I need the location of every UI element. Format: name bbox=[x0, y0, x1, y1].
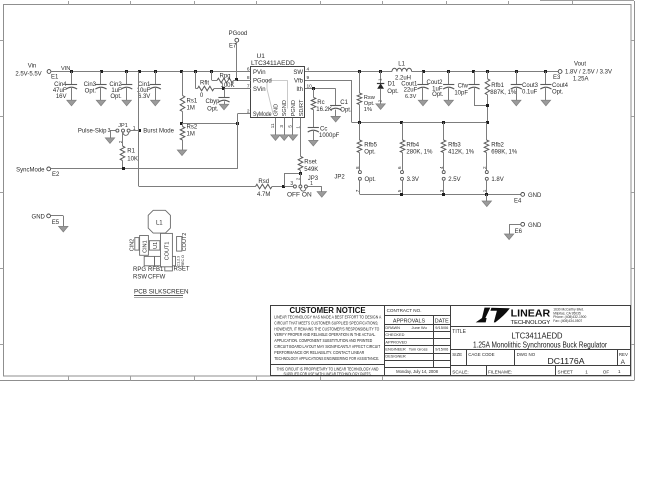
svg-text:3: 3 bbox=[279, 125, 284, 128]
wire SyncMode rail bbox=[51, 168, 238, 170]
svg-text:GND: GND bbox=[528, 223, 542, 229]
wire SW to L1 bbox=[305, 71, 392, 73]
svg-text:2.5V-5.5V: 2.5V-5.5V bbox=[15, 71, 41, 77]
svg-text:PVin: PVin bbox=[253, 70, 266, 76]
svg-text:E7: E7 bbox=[229, 43, 237, 49]
svg-text:GND: GND bbox=[528, 193, 542, 199]
silkscreen U1 box bbox=[149, 241, 160, 250]
node Cbyp tap bbox=[222, 87, 225, 90]
svg-text:Rfb5: Rfb5 bbox=[364, 143, 377, 149]
svg-text:Opt.: Opt. bbox=[552, 90, 564, 96]
svg-text:8: 8 bbox=[247, 75, 250, 81]
resistor Rfb4 280K/1% bbox=[400, 123, 433, 171]
svg-text:9/15/06: 9/15/06 bbox=[435, 325, 448, 330]
svg-text:3: 3 bbox=[108, 128, 111, 134]
silkscreen COUT1 box bbox=[161, 233, 173, 266]
svg-text:698K, 1%: 698K, 1% bbox=[491, 150, 518, 156]
svg-text:3.3V: 3.3V bbox=[407, 177, 419, 183]
wire Vfb to divider bbox=[305, 80, 352, 122]
resistor Rpg 100K bbox=[212, 72, 237, 90]
svg-text:FILENAME:: FILENAME: bbox=[488, 369, 512, 374]
svg-text:VIN: VIN bbox=[61, 66, 70, 72]
svg-text:Cc: Cc bbox=[320, 127, 327, 133]
resistor Rc 16.2K bbox=[311, 89, 332, 128]
node VIN junctions bbox=[70, 70, 213, 73]
U1 pin names bbox=[253, 70, 305, 118]
svg-text:SD/RT: SD/RT bbox=[299, 99, 305, 116]
jumper JP2 column 1.8V pins bbox=[482, 166, 504, 194]
wire feedback rail bbox=[352, 122, 487, 124]
wire SyncMode vertical riser bbox=[237, 114, 239, 169]
svg-text:11: 11 bbox=[270, 123, 275, 128]
node at SyncMode vertical bbox=[236, 122, 239, 125]
svg-text:10K: 10K bbox=[127, 157, 138, 163]
title cell bbox=[450, 329, 631, 350]
svg-text:JP1: JP1 bbox=[118, 123, 127, 129]
svg-text:C1: C1 bbox=[340, 100, 348, 106]
svg-text:TECHNOLOGY APPLICATIONS ENGINE: TECHNOLOGY APPLICATIONS ENGINEERING FOR … bbox=[274, 356, 379, 361]
svg-text:Cout3: Cout3 bbox=[522, 83, 539, 89]
zone tick marks bbox=[0, 1, 634, 381]
logo cell divider bbox=[450, 326, 631, 328]
diode D1 Opt bbox=[376, 72, 399, 110]
silkscreen L1 outline bbox=[148, 210, 170, 233]
title block column dividers bbox=[385, 306, 451, 376]
svg-text:ON: ON bbox=[302, 191, 312, 198]
sheet inner border bbox=[4, 5, 632, 377]
capacitor Cin3 Opt bbox=[84, 72, 107, 106]
contract no cell bbox=[384, 308, 450, 316]
node Rs1/Rs2 midpoint bbox=[180, 122, 183, 125]
capacitor C1 Opt bbox=[330, 89, 352, 122]
svg-text:PCB SILKSCREEN: PCB SILKSCREEN bbox=[134, 289, 189, 296]
svg-text:SIZE: SIZE bbox=[452, 352, 462, 357]
svg-text:SyMode: SyMode bbox=[253, 112, 272, 118]
resistor Rfb1 887K 1% bbox=[485, 72, 517, 123]
svg-text:Tom Gross: Tom Gross bbox=[409, 347, 428, 352]
svg-text:CIN1: CIN1 bbox=[142, 240, 148, 253]
svg-text:1M: 1M bbox=[187, 132, 195, 138]
resistor Rfb2 698K/1% bbox=[484, 123, 518, 171]
svg-text:Rpg: Rpg bbox=[219, 73, 230, 79]
resistor Rsw Opt 1% bbox=[357, 72, 376, 123]
svg-text:1%: 1% bbox=[364, 107, 372, 113]
svg-text:DESIGNER: DESIGNER bbox=[385, 354, 406, 359]
svg-text:Vin: Vin bbox=[28, 63, 37, 69]
wire VIN rail bbox=[51, 66, 251, 72]
svg-text:PERFORMANCE OR RELIABILITY. C: PERFORMANCE OR RELIABILITY. CONTACT LINE… bbox=[274, 350, 365, 355]
op-amp U1 LTC3411AEDD body bbox=[251, 67, 305, 118]
svg-text:RSW: RSW bbox=[133, 274, 147, 280]
svg-text:Cout4: Cout4 bbox=[552, 83, 569, 89]
svg-text:8: 8 bbox=[355, 166, 360, 169]
terminal E7 PGood bbox=[229, 31, 248, 49]
svg-text:ENGINEER: ENGINEER bbox=[385, 347, 406, 352]
terminal E4 GND bbox=[514, 193, 542, 205]
svg-text:Cin3: Cin3 bbox=[84, 82, 97, 88]
resistor Rflt 0 bbox=[196, 72, 252, 99]
node Vout junctions bbox=[422, 70, 547, 73]
svg-text:RFB1: RFB1 bbox=[148, 267, 164, 273]
svg-text:COUT1: COUT1 bbox=[165, 242, 171, 261]
customer notice divider bbox=[271, 364, 385, 366]
svg-text:DC1176A: DC1176A bbox=[548, 357, 586, 366]
capacitor Cout1 22uF 6.3V bbox=[401, 72, 428, 106]
svg-text:JP3: JP3 bbox=[308, 176, 319, 182]
svg-text:Rs1: Rs1 bbox=[187, 99, 198, 105]
silkscreen RSET box bbox=[165, 266, 173, 271]
resistor Rsd 4.7M bbox=[256, 179, 294, 198]
svg-text:Vout: Vout bbox=[574, 62, 586, 68]
svg-text:SVin: SVin bbox=[253, 87, 266, 93]
size cage dwg row bbox=[450, 350, 631, 366]
capacitor Cc 1000pF bbox=[308, 127, 340, 146]
svg-text:HOWEVER, IT REMAINS THE CUSTOM: HOWEVER, IT REMAINS THE CUSTOMER'S RESPO… bbox=[274, 326, 379, 331]
capacitor Cbyp Opt bbox=[205, 89, 229, 113]
inductor L1 2.2uH bbox=[392, 62, 412, 82]
svg-text:E5: E5 bbox=[52, 220, 60, 226]
node Rset bottom bbox=[299, 172, 302, 175]
svg-text:Rfb3: Rfb3 bbox=[448, 143, 461, 149]
ground at JP1 pin3 bbox=[105, 138, 114, 144]
node Rsw tap bbox=[358, 70, 361, 73]
svg-text:3: 3 bbox=[439, 189, 444, 192]
wire bypass to Rset bottom bbox=[284, 173, 300, 186]
jumper JP2 column 3.3V pins bbox=[397, 166, 419, 194]
svg-text:412K, 1%: 412K, 1% bbox=[448, 150, 475, 156]
svg-text:Monday, July 14, 2008: Monday, July 14, 2008 bbox=[396, 369, 438, 374]
scale filename sheet row bbox=[452, 366, 621, 376]
approvals header bbox=[384, 316, 450, 368]
node R1 bottom bbox=[122, 167, 125, 170]
svg-text:6: 6 bbox=[247, 66, 250, 72]
svg-text:Rs2: Rs2 bbox=[187, 125, 198, 131]
svg-text:5: 5 bbox=[397, 189, 402, 192]
svg-text:Rfb2: Rfb2 bbox=[491, 143, 504, 149]
svg-text:6.3V: 6.3V bbox=[138, 94, 150, 100]
svg-text:9/15/06: 9/15/06 bbox=[435, 347, 448, 352]
approvals rows bbox=[384, 332, 450, 368]
customer notice body text bbox=[274, 315, 382, 361]
capacitor Cout3 0.1uF bbox=[511, 72, 539, 106]
customer notice proprietary text bbox=[277, 366, 379, 376]
node Cfw to Rfb1 bbox=[486, 104, 489, 107]
svg-text:1.8V / 2.5V / 3.3V: 1.8V / 2.5V / 3.3V bbox=[565, 69, 612, 75]
U1 pin numbers bbox=[247, 66, 312, 128]
svg-text:E6: E6 bbox=[515, 229, 523, 235]
svg-text:SGND: SGND bbox=[282, 100, 288, 116]
svg-text:RPG: RPG bbox=[133, 267, 146, 273]
svg-text:E1: E1 bbox=[51, 75, 59, 81]
svg-text:Rflt: Rflt bbox=[200, 80, 209, 86]
U1 ground pin SGND bbox=[280, 118, 289, 141]
svg-text:DRAWN: DRAWN bbox=[385, 325, 400, 330]
svg-text:GND: GND bbox=[274, 104, 280, 116]
svg-text:3: 3 bbox=[290, 181, 293, 187]
svg-text:CIRCUIT THAT MEETS CUSTOMER-SU: CIRCUIT THAT MEETS CUSTOMER-SUPPLIED SPE… bbox=[274, 320, 378, 325]
svg-text:OFF: OFF bbox=[287, 191, 300, 198]
terminal E3 Vout bbox=[553, 62, 612, 83]
silkscreen CIN2 box bbox=[135, 238, 139, 251]
svg-text:Cout1: Cout1 bbox=[401, 81, 418, 87]
svg-text:1.25A Monolithic Synchronous B: 1.25A Monolithic Synchronous Buck Regula… bbox=[473, 339, 607, 349]
svg-text:TECHNOLOGY: TECHNOLOGY bbox=[511, 320, 551, 326]
svg-text:VERIFY PROPER AND RELIABLE OPE: VERIFY PROPER AND RELIABLE OPERATION IN … bbox=[274, 332, 375, 337]
logo address bbox=[553, 308, 586, 323]
node Ith bbox=[312, 87, 315, 90]
svg-text:1: 1 bbox=[133, 126, 136, 132]
svg-text:PGND: PGND bbox=[291, 100, 297, 116]
jumper JP1 pins bbox=[110, 129, 139, 138]
svg-text:APPROVED: APPROVED bbox=[385, 339, 407, 344]
sheet outer border right bbox=[634, 1, 636, 381]
wire midpoint to SyncMode vertical bbox=[182, 123, 237, 125]
wire SD/RT bbox=[300, 118, 302, 157]
svg-text:Cout2: Cout2 bbox=[426, 80, 443, 86]
title block outline bbox=[271, 306, 631, 376]
wire JP2 ground rail bbox=[360, 194, 521, 196]
ground at feedback rail bbox=[482, 194, 491, 206]
wire VIN drop vertical bbox=[138, 72, 140, 187]
svg-text:1: 1 bbox=[618, 369, 621, 374]
jumper JP3 pins bbox=[32, 173, 631, 376]
svg-text:SUPPLIED FOR USE WITH LINEAR T: SUPPLIED FOR USE WITH LINEAR TECHNOLOGY … bbox=[284, 372, 372, 377]
svg-text:June Wu: June Wu bbox=[412, 325, 427, 330]
svg-text:1: 1 bbox=[295, 126, 300, 129]
svg-text:549K: 549K bbox=[304, 167, 318, 173]
svg-text:Fax: (408)434-0507: Fax: (408)434-0507 bbox=[553, 319, 582, 323]
svg-text:E2: E2 bbox=[52, 172, 60, 178]
svg-text:Opt.: Opt. bbox=[207, 106, 219, 112]
capacitor Cout2 1uF Opt bbox=[426, 72, 454, 106]
label PCB SILKSCREEN bbox=[134, 289, 189, 298]
svg-text:Opt.: Opt. bbox=[340, 108, 352, 114]
resistor Rset 549K bbox=[298, 156, 318, 173]
svg-text:PGood: PGood bbox=[229, 31, 248, 37]
svg-text:10pF: 10pF bbox=[454, 91, 468, 97]
svg-text:SHEET: SHEET bbox=[558, 369, 574, 374]
wire Ith bbox=[305, 88, 336, 90]
svg-text:Rc: Rc bbox=[317, 100, 324, 106]
svg-text:Rfb4: Rfb4 bbox=[406, 143, 419, 149]
resistor Rs1 1M bbox=[180, 72, 198, 124]
svg-text:LINEAR TECHNOLOGY HAS MADE A B: LINEAR TECHNOLOGY HAS MADE A BEST EFFORT… bbox=[274, 315, 382, 320]
sheet outer border bottom bbox=[0, 380, 634, 382]
svg-text:5: 5 bbox=[288, 125, 293, 128]
svg-text:22uF: 22uF bbox=[404, 88, 418, 94]
svg-text:PGood: PGood bbox=[253, 78, 272, 84]
svg-text:6: 6 bbox=[397, 166, 402, 169]
resistor R1 10K bbox=[120, 132, 138, 169]
svg-text:Opt.: Opt. bbox=[364, 150, 376, 156]
node feedback rail junctions bbox=[358, 121, 489, 124]
svg-text:RSET: RSET bbox=[174, 267, 190, 273]
svg-text:REC O: REC O bbox=[181, 255, 185, 267]
svg-text:LTC3411AEDD: LTC3411AEDD bbox=[251, 60, 295, 67]
svg-text:Opt.: Opt. bbox=[432, 92, 444, 98]
jumper JP2 column 2.5V pins bbox=[439, 166, 461, 194]
svg-text:CHECKED: CHECKED bbox=[385, 332, 404, 337]
wire E7 to PGood pin bbox=[237, 42, 252, 80]
node D1 tap bbox=[379, 70, 382, 73]
svg-text:L1: L1 bbox=[398, 62, 405, 68]
capacitor Cout4 Opt bbox=[540, 72, 568, 106]
svg-text:GND: GND bbox=[32, 214, 46, 220]
svg-text:DWG NO: DWG NO bbox=[517, 352, 536, 357]
node ground rail junctions bbox=[400, 193, 488, 196]
wire JP3 to ground bbox=[308, 187, 327, 198]
svg-text:Burst Mode: Burst Mode bbox=[143, 129, 174, 135]
svg-text:C1,2,3: C1,2,3 bbox=[176, 256, 180, 267]
svg-text:U1: U1 bbox=[257, 53, 266, 60]
svg-text:CAGE CODE: CAGE CODE bbox=[468, 352, 494, 357]
svg-text:SW: SW bbox=[293, 70, 303, 76]
svg-text:SCALE:: SCALE: bbox=[452, 369, 468, 374]
node Rset bypass at Rsd line bbox=[282, 185, 285, 188]
svg-text:16V: 16V bbox=[56, 94, 67, 100]
silkscreen resistor row box bbox=[144, 256, 175, 265]
svg-text:Rsd: Rsd bbox=[258, 179, 269, 185]
svg-text:2.5V: 2.5V bbox=[448, 177, 460, 183]
svg-text:Opt.: Opt. bbox=[85, 88, 97, 94]
svg-text:CIRCUIT BOARD LAYOUT MAY SIGNI: CIRCUIT BOARD LAYOUT MAY SIGNIFICANTLY A… bbox=[274, 344, 380, 349]
svg-text:887K, 1%: 887K, 1% bbox=[490, 90, 517, 96]
svg-text:APPROVALS: APPROVALS bbox=[393, 318, 426, 324]
node PGood bbox=[235, 78, 238, 81]
svg-text:Rset: Rset bbox=[304, 160, 317, 166]
capacitor Cin1 10uF 6.3V bbox=[137, 72, 161, 106]
svg-text:Vfb: Vfb bbox=[294, 78, 304, 84]
terminal E6 GND bbox=[504, 222, 542, 239]
terminal E5 GND bbox=[32, 214, 68, 232]
svg-text:R1: R1 bbox=[127, 149, 135, 155]
silkscreen CIN1 box bbox=[140, 236, 149, 256]
svg-text:E4: E4 bbox=[514, 199, 522, 205]
wire Rsd rail bbox=[139, 186, 256, 188]
svg-text:COUT2: COUT2 bbox=[182, 233, 188, 252]
svg-text:JP2: JP2 bbox=[334, 175, 345, 181]
svg-text:4: 4 bbox=[439, 166, 444, 169]
svg-text:SyncMode: SyncMode bbox=[16, 167, 45, 173]
resistor Rfb3 412K/1% bbox=[441, 123, 475, 171]
svg-text:Cbyp: Cbyp bbox=[205, 99, 220, 105]
svg-text:2: 2 bbox=[296, 177, 301, 180]
svg-text:APPLICATION. COMPONENT SUBSTI: APPLICATION. COMPONENT SUBSTITUTION AND … bbox=[274, 338, 373, 343]
capacitor Cin4 47uF 16V bbox=[53, 72, 77, 106]
svg-text:4.7M: 4.7M bbox=[257, 192, 270, 198]
wire to SyMode pin bbox=[237, 113, 251, 115]
svg-text:Cfw: Cfw bbox=[458, 83, 469, 89]
wire Vout rail bbox=[412, 71, 559, 73]
svg-text:1M: 1M bbox=[187, 106, 195, 112]
svg-text:TITLE: TITLE bbox=[452, 329, 466, 335]
svg-text:Ith: Ith bbox=[296, 87, 303, 93]
U1 ground pin PGND bbox=[288, 118, 297, 141]
svg-text:0.1uF: 0.1uF bbox=[522, 90, 538, 96]
terminal E2 SyncMode bbox=[16, 167, 60, 178]
svg-text:Opt.: Opt. bbox=[387, 89, 399, 95]
svg-text:Opt.: Opt. bbox=[110, 94, 122, 100]
svg-text:1000pF: 1000pF bbox=[319, 133, 340, 139]
terminal E1 Vin bbox=[15, 63, 59, 80]
svg-text:6.3V: 6.3V bbox=[405, 94, 417, 100]
svg-text:LINEAR: LINEAR bbox=[511, 308, 551, 319]
svg-text:L1: L1 bbox=[156, 220, 163, 226]
svg-text:Pulse-Skip: Pulse-Skip bbox=[78, 129, 107, 135]
sheet outer border top-right bbox=[540, 0, 634, 2]
svg-text:Opt.: Opt. bbox=[365, 177, 377, 183]
svg-text:16.2K: 16.2K bbox=[316, 107, 332, 113]
svg-text:280K, 1%: 280K, 1% bbox=[406, 150, 433, 156]
resistor Rfb5 Opt. bbox=[357, 123, 377, 171]
svg-text:D1: D1 bbox=[388, 82, 396, 88]
capacitor Cin2 1uF Opt bbox=[109, 72, 132, 106]
svg-text:DATE: DATE bbox=[435, 318, 449, 324]
U1 exposed pad outline bbox=[267, 81, 288, 114]
svg-text:Rfb1: Rfb1 bbox=[491, 83, 504, 89]
approvals row labels bbox=[385, 325, 448, 359]
svg-text:CUSTOMER NOTICE: CUSTOMER NOTICE bbox=[289, 306, 365, 315]
capacitor Cfw 10pF bbox=[454, 72, 487, 106]
svg-text:1: 1 bbox=[585, 369, 588, 374]
svg-text:A: A bbox=[621, 359, 626, 366]
svg-text:2: 2 bbox=[482, 166, 487, 169]
svg-text:E3: E3 bbox=[553, 75, 561, 81]
svg-text:OF: OF bbox=[603, 370, 610, 375]
svg-text:CIN2: CIN2 bbox=[129, 239, 135, 252]
svg-text:2: 2 bbox=[247, 109, 250, 115]
svg-text:1.25A: 1.25A bbox=[573, 76, 589, 82]
U1 ground pin GND bbox=[271, 118, 280, 141]
svg-text:CONTRACT NO.: CONTRACT NO. bbox=[387, 308, 422, 313]
svg-text:CFFW: CFFW bbox=[148, 274, 166, 280]
node JP1 pin1 to VIN drop bbox=[138, 129, 141, 132]
resistor Rs2 1M bbox=[177, 124, 198, 156]
jumper JP2 column Opt. pins bbox=[355, 166, 376, 194]
svg-text:U1: U1 bbox=[153, 242, 159, 249]
svg-text:1.8V: 1.8V bbox=[491, 177, 503, 183]
silkscreen COUT2 box bbox=[177, 237, 182, 252]
svg-text:REV: REV bbox=[619, 352, 628, 357]
Linear Technology logo mark bbox=[476, 308, 510, 323]
svg-text:1: 1 bbox=[482, 189, 487, 192]
svg-text:7: 7 bbox=[355, 189, 360, 192]
